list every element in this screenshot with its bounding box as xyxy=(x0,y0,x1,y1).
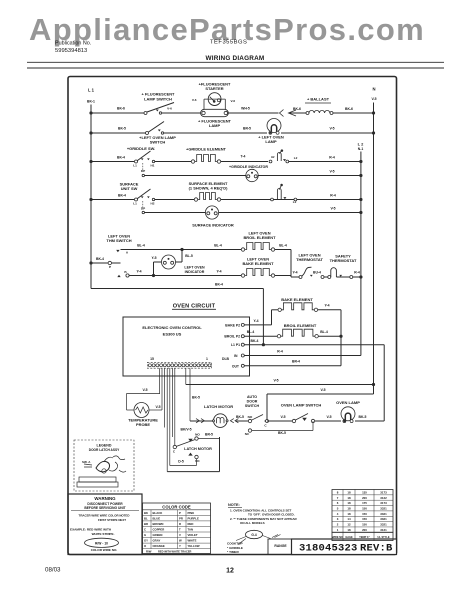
svg-text:2: 2 xyxy=(337,523,339,527)
svg-text:V-5: V-5 xyxy=(142,388,147,392)
svg-text:BK-4: BK-4 xyxy=(118,194,126,198)
svg-text:150: 150 xyxy=(362,517,367,521)
svg-text:TAN: TAN xyxy=(188,527,194,531)
svg-text:BK-5: BK-5 xyxy=(359,415,367,419)
svg-text:VIOLET: VIOLET xyxy=(188,533,198,537)
terminal strip P4 xyxy=(147,362,211,368)
svg-text:V-5: V-5 xyxy=(330,207,335,211)
svg-text:COPPER: COPPER xyxy=(153,527,165,531)
svg-text:200: 200 xyxy=(362,496,367,500)
safety thermostat xyxy=(328,276,331,279)
svg-text:TO 'OFF'. OVEN DOOR CLOSED.: TO 'OFF'. OVEN DOOR CLOSED. xyxy=(248,512,295,516)
svg-text:14: 14 xyxy=(347,517,351,521)
svg-text:DP: DP xyxy=(141,169,145,173)
junction L1 row5 xyxy=(89,261,92,264)
svg-text:LAMP: LAMP xyxy=(265,139,277,144)
svg-text:Y-4: Y-4 xyxy=(136,269,141,273)
svg-text:BK-5: BK-5 xyxy=(278,431,286,435)
svg-text:R-4: R-4 xyxy=(277,349,283,353)
svg-text:R/W - 10: R/W - 10 xyxy=(95,541,108,545)
left oven indicator xyxy=(162,255,176,269)
svg-text:REV:B: REV:B xyxy=(360,543,393,555)
svg-text:C: C xyxy=(144,527,146,531)
svg-text:UNIT SW: UNIT SW xyxy=(121,186,138,191)
wire BK-6 to ballast xyxy=(289,112,307,114)
svg-text:V-5: V-5 xyxy=(273,378,278,382)
svg-text:135: 135 xyxy=(362,490,367,494)
svg-text:08/03: 08/03 xyxy=(45,567,61,574)
svg-text:V-5: V-5 xyxy=(326,415,331,419)
svg-text:NC: NC xyxy=(245,432,250,436)
svg-text:LATCH MOTOR: LATCH MOTOR xyxy=(204,404,233,409)
svg-text:LAMP: LAMP xyxy=(209,123,221,128)
svg-text:PINK: PINK xyxy=(188,511,195,515)
svg-text:BROIL P2: BROIL P2 xyxy=(224,335,240,339)
wire BK-4 rail xyxy=(91,288,263,290)
svg-text:BAKE P2: BAKE P2 xyxy=(225,323,240,327)
svg-text:3122: 3122 xyxy=(380,496,387,500)
wire Y-4 bake pin xyxy=(244,324,271,326)
svg-text:OVEN LAMP: OVEN LAMP xyxy=(336,400,360,405)
svg-text:FIRST STRIPE NEXT: FIRST STRIPE NEXT xyxy=(98,518,126,522)
svg-text:7: 7 xyxy=(337,496,339,500)
svg-text:PURPLE: PURPLE xyxy=(188,516,199,520)
svg-text:GY: GY xyxy=(144,539,148,543)
svg-text:SW. A: SW. A xyxy=(82,460,91,464)
svg-text:GAGE: GAGE xyxy=(345,536,353,539)
warning box xyxy=(68,494,142,555)
junction N V-5 xyxy=(372,383,375,386)
wire BK-6 ballast to N xyxy=(333,112,374,114)
svg-text:BEFORE SERVICING UNIT: BEFORE SERVICING UNIT xyxy=(84,506,125,510)
svg-text:SWITCH: SWITCH xyxy=(150,140,166,145)
junction bake broil common xyxy=(339,335,342,338)
svg-text:EXAMPLE: RED WIRE WITH: EXAMPLE: RED WIRE WITH xyxy=(70,528,112,532)
svg-text:R/W: R/W xyxy=(146,549,152,553)
svg-text:L 1: L 1 xyxy=(88,88,95,93)
wire BR-5 xyxy=(164,132,267,134)
svg-text:200: 200 xyxy=(362,528,367,532)
junction N row1 xyxy=(372,111,375,114)
svg-text:DOOR: DOOR xyxy=(247,400,258,404)
example ellipse R/W-10 xyxy=(85,538,119,547)
svg-text:1: 1 xyxy=(337,528,339,532)
svg-text:WH-5: WH-5 xyxy=(241,107,250,111)
wire T-4 xyxy=(155,161,191,163)
svg-text:G-4: G-4 xyxy=(251,533,257,537)
svg-text:GREEN: GREEN xyxy=(153,533,163,537)
svg-text:Publication No.: Publication No. xyxy=(55,41,91,47)
svg-text:UL STYLE: UL STYLE xyxy=(377,536,389,539)
svg-text:L1: L1 xyxy=(133,201,137,205)
svg-text:L1: L1 xyxy=(133,163,137,167)
wire BK-4 griddle xyxy=(91,161,134,163)
svg-text:OVEN LAMP SWITCH: OVEN LAMP SWITCH xyxy=(281,403,322,408)
svg-text:3173: 3173 xyxy=(380,501,387,505)
wire BK-5 xyxy=(91,132,146,134)
op-box electronic oven control xyxy=(123,317,250,376)
svg-text:ELECTRONIC OVEN CONTROL: ELECTRONIC OVEN CONTROL xyxy=(142,325,202,330)
svg-text:H2: H2 xyxy=(151,201,155,205)
svg-text:3321: 3321 xyxy=(380,512,387,516)
svg-text:BL-4: BL-4 xyxy=(214,243,222,247)
griddle indicator xyxy=(246,169,258,181)
svg-text:DOOR LATCH ASSY: DOOR LATCH ASSY xyxy=(89,448,120,452)
svg-text:WHITE: WHITE xyxy=(188,539,197,543)
left oven lamp switch xyxy=(146,132,149,135)
wire broil to thermostat row xyxy=(290,250,292,278)
svg-text:BK-4: BK-4 xyxy=(251,339,259,343)
svg-text:18: 18 xyxy=(347,496,351,500)
svg-text:RED: RED xyxy=(188,522,194,526)
svg-text:+ BALLAST: + BALLAST xyxy=(307,97,330,102)
svg-text:RANGE: RANGE xyxy=(274,544,287,548)
latch switch enclosure xyxy=(167,471,219,473)
svg-text:LAMP SWITCH: LAMP SWITCH xyxy=(144,96,172,101)
svg-text:BLACK: BLACK xyxy=(153,511,163,515)
svg-text:BL-4: BL-4 xyxy=(279,243,287,247)
svg-text:INDICATOR: INDICATOR xyxy=(185,270,205,274)
svg-text:BK: BK xyxy=(144,511,148,515)
svg-text:Y-4: Y-4 xyxy=(253,319,258,323)
svg-text:BR-5: BR-5 xyxy=(205,432,213,436)
part number box xyxy=(292,539,397,555)
svg-text:BAKE ELEMENT: BAKE ELEMENT xyxy=(242,261,274,266)
svg-text:LEFT OVEN: LEFT OVEN xyxy=(184,265,205,269)
connector chevrons xyxy=(280,110,284,117)
range box xyxy=(268,539,292,555)
svg-text:N-1: N-1 xyxy=(358,147,364,151)
svg-text:ES300 US: ES300 US xyxy=(163,332,182,337)
svg-text:THM SWITCH: THM SWITCH xyxy=(106,238,131,243)
svg-text:+GRIDDLE SW.: +GRIDDLE SW. xyxy=(127,146,155,151)
svg-text:V-5: V-5 xyxy=(320,388,325,392)
svg-text:YELLOW: YELLOW xyxy=(188,544,200,548)
svg-text:BK-5: BK-5 xyxy=(118,127,126,131)
svg-text:STARTER: STARTER xyxy=(205,86,223,91)
color code table xyxy=(143,503,211,554)
svg-text:(1 SHOWN, 4 REQ'D): (1 SHOWN, 4 REQ'D) xyxy=(189,186,228,191)
svg-text:* TIMER: * TIMER xyxy=(227,550,239,554)
svg-text:BK-5: BK-5 xyxy=(236,415,244,419)
wire BK-5 drop xyxy=(189,368,191,421)
svg-text:V-6: V-6 xyxy=(167,106,172,110)
svg-text:BK-5: BK-5 xyxy=(192,395,200,399)
svg-text:G: G xyxy=(144,533,146,537)
svg-text:L1 P1: L1 P1 xyxy=(231,343,240,347)
fluorescent lamp xyxy=(201,109,229,116)
svg-text:BK-4: BK-4 xyxy=(117,155,125,159)
svg-text:18: 18 xyxy=(347,506,351,510)
svg-text:COLOR CODE: COLOR CODE xyxy=(162,504,191,509)
wire terminal drops xyxy=(159,368,161,394)
surface indicator xyxy=(205,206,218,219)
svg-text:Y-4: Y-4 xyxy=(292,270,297,274)
svg-text:BK-4: BK-4 xyxy=(215,282,223,286)
svg-text:BL: BL xyxy=(144,516,148,520)
svg-text:318045323: 318045323 xyxy=(299,543,358,555)
svg-text:BL-4: BL-4 xyxy=(247,330,255,334)
svg-text:18: 18 xyxy=(347,490,351,494)
svg-text:V-5: V-5 xyxy=(329,169,334,173)
wire BK right rail xyxy=(383,345,385,421)
wire R-4 griddle xyxy=(289,161,361,163)
svg-text:N: N xyxy=(372,87,375,92)
svg-text:OUT: OUT xyxy=(232,364,240,368)
junction L1 row2 xyxy=(89,131,92,134)
wire WH-5 xyxy=(228,112,279,114)
svg-text:OVEN CIRCUIT: OVEN CIRCUIT xyxy=(173,304,216,310)
svg-text:NOTE:: NOTE: xyxy=(228,503,240,507)
svg-text:RED WITH WHITE TRACER: RED WITH WHITE TRACER xyxy=(158,549,192,553)
wire BR-4 DLB OUT xyxy=(244,365,341,367)
svg-text:150: 150 xyxy=(362,506,367,510)
svg-text:WIRE NO: WIRE NO xyxy=(332,536,343,539)
svg-text:SWITCH: SWITCH xyxy=(245,404,260,408)
legend door latch assy box xyxy=(74,440,134,491)
svg-text:BR: BR xyxy=(144,522,148,526)
svg-text:COLOR WIRE NO.: COLOR WIRE NO. xyxy=(91,548,118,552)
svg-text:WIRING DIAGRAM: WIRING DIAGRAM xyxy=(206,55,265,62)
wire V-5 surface indicator xyxy=(145,212,206,214)
svg-text:P: P xyxy=(109,265,111,269)
svg-text:L 2: L 2 xyxy=(358,142,364,147)
svg-text:6: 6 xyxy=(337,501,339,505)
svg-text:L2: L2 xyxy=(293,200,297,204)
junction L1P1 BK-4 xyxy=(262,343,265,346)
junction N row2 xyxy=(372,131,375,134)
svg-text:H1: H1 xyxy=(151,163,155,167)
svg-text:3321: 3321 xyxy=(380,517,387,521)
griddle thermostat xyxy=(269,160,272,163)
svg-text:BK-1: BK-1 xyxy=(87,100,95,104)
svg-text:AUTO: AUTO xyxy=(247,395,257,399)
svg-text:V-5: V-5 xyxy=(155,405,160,409)
svg-text:V: V xyxy=(179,533,181,537)
svg-text:BL-4: BL-4 xyxy=(320,330,328,334)
door latch drawing xyxy=(96,461,110,471)
wire BK-4 L1 P1 xyxy=(244,344,384,346)
svg-text:5: 5 xyxy=(337,506,339,510)
svg-text:5995394813: 5995394813 xyxy=(55,48,87,54)
svg-text:150: 150 xyxy=(362,512,367,516)
svg-text:BU-4: BU-4 xyxy=(313,270,321,274)
svg-text:BROWN: BROWN xyxy=(153,522,164,526)
svg-text:V-5: V-5 xyxy=(371,97,376,101)
svg-text:+GRIDDLE ELEMENT: +GRIDDLE ELEMENT xyxy=(186,147,227,152)
svg-text:150: 150 xyxy=(362,523,367,527)
junction L1 row1 xyxy=(89,111,92,114)
svg-text:15: 15 xyxy=(150,357,154,361)
junction L1 row3 xyxy=(89,160,92,163)
svg-text:BL-4: BL-4 xyxy=(137,243,145,247)
svg-text:R: R xyxy=(179,522,181,526)
svg-text:PROBE: PROBE xyxy=(136,422,150,427)
svg-text:BROIL ELEMENT: BROIL ELEMENT xyxy=(243,235,276,240)
svg-text:3121: 3121 xyxy=(380,528,387,532)
svg-text:Y-5: Y-5 xyxy=(151,256,156,260)
svg-text:V-5: V-5 xyxy=(280,415,285,419)
svg-text:H2: H2 xyxy=(271,155,275,159)
svg-text:C: C xyxy=(173,449,176,453)
svg-text:DLB: DLB xyxy=(222,357,230,361)
svg-text:18: 18 xyxy=(347,512,351,516)
svg-text:LEGEND: LEGEND xyxy=(97,444,112,448)
svg-text:18: 18 xyxy=(347,501,351,505)
wire V-5 neutral row xyxy=(186,384,374,386)
wire NC branch BK-5 xyxy=(312,421,314,431)
svg-text:R-4: R-4 xyxy=(330,194,336,198)
svg-text:+GRIDDLE INDICATOR: +GRIDDLE INDICATOR xyxy=(229,165,268,169)
wire BK-4 surface xyxy=(91,199,134,201)
svg-text:8: 8 xyxy=(337,490,339,494)
svg-text:DP: DP xyxy=(141,207,145,211)
svg-text:L2: L2 xyxy=(294,156,298,160)
svg-text:TEMP C°: TEMP C° xyxy=(359,536,369,539)
svg-text:R-4: R-4 xyxy=(329,155,335,159)
svg-text:ON ALL MODELS: ON ALL MODELS xyxy=(240,521,265,525)
wire V-5 griddle indicator xyxy=(145,175,246,177)
svg-text:TEF355BGS: TEF355BGS xyxy=(210,40,247,46)
svg-text:NO: NO xyxy=(195,432,200,436)
svg-text:175: 175 xyxy=(362,501,367,505)
svg-text:LATCH MOTOR: LATCH MOTOR xyxy=(184,447,212,451)
svg-text:BL-5: BL-5 xyxy=(185,254,193,258)
svg-text:Y: Y xyxy=(179,544,181,548)
svg-text:3173: 3173 xyxy=(380,490,387,494)
schematic border frame xyxy=(68,77,397,555)
wire V-5 row2 xyxy=(281,132,374,134)
surface limiter xyxy=(271,198,274,201)
svg-text:O: O xyxy=(144,544,147,548)
svg-text:18: 18 xyxy=(347,528,351,532)
svg-text:V-6: V-6 xyxy=(231,99,236,103)
svg-text:12: 12 xyxy=(226,568,234,575)
svg-text:IN: IN xyxy=(234,354,238,358)
svg-text:BR-4: BR-4 xyxy=(292,360,300,364)
svg-text:BAKE ELEMENT: BAKE ELEMENT xyxy=(281,297,313,302)
svg-text:W: W xyxy=(179,539,182,543)
svg-text:BR-5: BR-5 xyxy=(243,126,251,130)
svg-text:T: T xyxy=(179,527,181,531)
svg-text:V-5: V-5 xyxy=(329,127,334,131)
svg-text:4: 4 xyxy=(337,512,339,516)
wire oven lamp box top xyxy=(267,393,374,395)
svg-text:Y-4: Y-4 xyxy=(324,304,329,308)
svg-text:P: P xyxy=(179,511,181,515)
svg-text:R-4: R-4 xyxy=(354,270,360,274)
svg-text:V-6: V-6 xyxy=(192,98,197,102)
svg-text:BK-6: BK-6 xyxy=(293,107,301,111)
wire L2 to DLB IN pin xyxy=(243,355,361,357)
indicator branch BL-5 xyxy=(181,250,183,263)
svg-text:BK-6: BK-6 xyxy=(117,107,125,111)
svg-text:GRAY: GRAY xyxy=(153,539,161,543)
svg-text:C: C xyxy=(264,423,267,427)
svg-text:A: A xyxy=(126,251,129,255)
svg-text:NC: NC xyxy=(195,459,200,463)
wire BL-4 broil top xyxy=(121,249,242,251)
thm switch terminals xyxy=(116,250,119,252)
svg-text:3321: 3321 xyxy=(380,523,387,527)
svg-text:SURFACE INDICATOR: SURFACE INDICATOR xyxy=(192,223,234,228)
wire R-4 surface xyxy=(273,199,294,201)
svg-text:3: 3 xyxy=(337,517,339,521)
callout G-4 xyxy=(246,530,263,538)
svg-text:3321: 3321 xyxy=(380,506,387,510)
svg-text:D-5: D-5 xyxy=(178,459,184,463)
svg-text:PR: PR xyxy=(179,516,183,520)
svg-text:WHITE STRIPE.: WHITE STRIPE. xyxy=(92,532,115,536)
left oven lamp xyxy=(267,119,281,135)
svg-text:Y-4: Y-4 xyxy=(216,269,221,273)
svg-text:BROIL ELEMENT: BROIL ELEMENT xyxy=(284,323,317,328)
wire Y-4 bake bottom xyxy=(129,275,241,277)
svg-text:12: 12 xyxy=(347,523,351,527)
svg-text:THERMOSTAT: THERMOSTAT xyxy=(330,258,357,263)
svg-text:1: 1 xyxy=(206,357,208,361)
svg-text:BK/V-5: BK/V-5 xyxy=(181,428,192,432)
wire BL-4 broil pin xyxy=(244,335,277,337)
svg-text:BK-6: BK-6 xyxy=(345,107,353,111)
svg-text:ORANGE: ORANGE xyxy=(153,544,165,548)
svg-text:BLUE: BLUE xyxy=(153,516,161,520)
svg-text:T-4: T-4 xyxy=(241,154,246,158)
svg-text:NO: NO xyxy=(248,415,253,419)
wire V-6 xyxy=(91,112,144,114)
svg-text:BK-4: BK-4 xyxy=(96,257,104,261)
junction L1 row4 xyxy=(89,198,92,201)
wire gauge table xyxy=(332,490,393,533)
svg-text:THERMOSTAT: THERMOSTAT xyxy=(296,257,323,262)
svg-text:WARNING: WARNING xyxy=(94,496,116,501)
